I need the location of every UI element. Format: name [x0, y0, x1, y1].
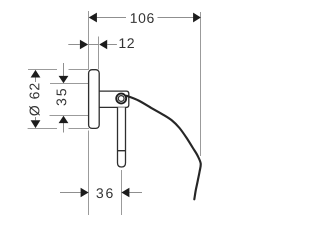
spring wire [127, 96, 201, 200]
dimension 106 label [131, 13, 154, 23]
pivot outer ring [116, 94, 126, 104]
dimension 35 line [63, 63, 65, 76]
extension line rosette bottom edge (y=128) [28, 128, 57, 130]
extension line arm bottom extent (y=115.5) [50, 115, 90, 117]
dimension dia62 line [35, 77, 37, 82]
dimension 35 label [56, 89, 66, 106]
dimension dia62 top arrow [31, 70, 41, 78]
extension line rod axis bottom (x=121.6) [121, 170, 123, 215]
rod joint line [118, 150, 126, 152]
dimension 106 left arrow [89, 13, 97, 23]
wall rosette (side view pill) [89, 70, 100, 129]
dimension 36 line [60, 192, 81, 194]
extension line wire end (x=200.7) [200, 12, 202, 156]
dimension 12 line [68, 44, 80, 46]
dimension dia62 bottom arrow [31, 120, 41, 128]
extension line rosette top edge (y=69.6) [28, 69, 57, 71]
dimension 36 label [96, 188, 112, 198]
dimension 36 right arrow [121, 188, 129, 198]
extension line wall plane top (x=88.6) [88, 11, 90, 70]
arm outline [99, 91, 129, 107]
dimension dia62 label [29, 84, 39, 116]
dimension 12 left arrow [80, 40, 88, 50]
pivot inner circle [118, 96, 124, 102]
arm body fill [99, 91, 129, 107]
dimension 36 left arrow [81, 188, 89, 198]
dimension 35 top arrow [59, 76, 69, 83]
dimension 35 bottom arrow [59, 116, 69, 123]
extension line wall plane bottom (x=88.8) [88, 131, 90, 216]
dimension 12 right arrow [99, 40, 107, 50]
dimension 106 right arrow [193, 13, 201, 23]
roll holder rod [118, 107, 126, 167]
extension line arm top edge (y=83.5) [50, 83, 89, 85]
extension line rosette front (x=98.9) [98, 37, 100, 70]
dimension 106 line [97, 17, 127, 19]
dimension 12 label [120, 38, 134, 48]
